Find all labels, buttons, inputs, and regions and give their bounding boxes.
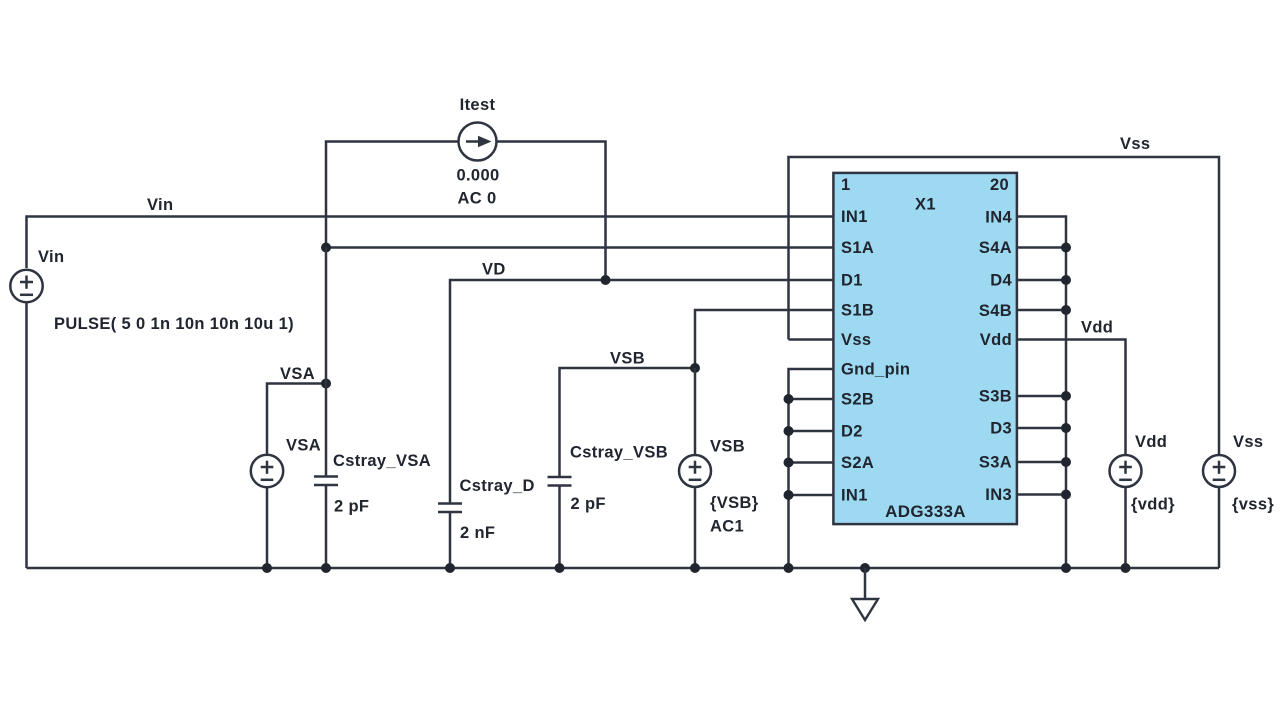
- pin D4 label: [990, 272, 1012, 290]
- wire Vss source bottom: [1218, 487, 1221, 568]
- label value {vdd}: [1131, 495, 1175, 513]
- svg-text:2 nF: 2 nF: [460, 524, 495, 542]
- pin IN4 label: [985, 209, 1012, 227]
- svg-text:PULSE( 5 0 1n 10n 10n 10u 1): PULSE( 5 0 1n 10n 10n 10u 1): [54, 315, 294, 333]
- svg-text:Vdd: Vdd: [1081, 319, 1113, 337]
- wire S1B pin to node VSB: [695, 310, 833, 368]
- label 0.000: [456, 167, 499, 185]
- junction S2A: [784, 458, 794, 468]
- svg-text:{vss}: {vss}: [1232, 495, 1274, 513]
- svg-text:AC 0: AC 0: [458, 190, 497, 208]
- pin S1A label: [841, 239, 874, 257]
- svg-text:S1B: S1B: [841, 302, 874, 320]
- wire S1A (node to IC pin S1A): [326, 246, 833, 249]
- label net Vdd (upper): [1081, 319, 1113, 337]
- svg-text:S4B: S4B: [979, 302, 1012, 320]
- label Vin (source name): [38, 248, 64, 266]
- svg-text:X1: X1: [915, 196, 936, 214]
- capacitor Cstray_VSB: [548, 477, 572, 568]
- junction rail right bus: [1061, 563, 1071, 573]
- label AC 0: [458, 190, 497, 208]
- svg-text:Vdd: Vdd: [1135, 433, 1167, 451]
- junction S3B: [1061, 391, 1071, 401]
- label Vdd (source name): [1135, 433, 1167, 451]
- svg-text:D3: D3: [990, 420, 1012, 438]
- junction S4B: [1061, 305, 1071, 315]
- svg-text:Vin: Vin: [147, 196, 173, 214]
- wire ground rail bottom: [27, 567, 1220, 570]
- svg-text:VSA: VSA: [286, 437, 321, 455]
- wire Vss pin stub: [789, 338, 834, 341]
- junction rail ground symbol: [860, 563, 870, 573]
- svg-text:ADG333A: ADG333A: [885, 502, 966, 521]
- IC U1 ADG333A body: [833, 173, 1017, 524]
- label Itest: [460, 96, 496, 114]
- label pin 20: [990, 176, 1009, 194]
- junction rail Cstray_VSB: [555, 563, 565, 573]
- junction VSB: [690, 363, 700, 373]
- wire IN4 right bus: [1017, 217, 1066, 569]
- junction S3A: [1061, 457, 1071, 467]
- pin S1B label: [841, 302, 874, 320]
- junction rail Vdd: [1121, 563, 1131, 573]
- svg-text:2 pF: 2 pF: [334, 498, 369, 516]
- svg-text:20: 20: [990, 176, 1009, 194]
- junction D3: [1061, 423, 1071, 433]
- label 2 pF (VSB): [571, 495, 606, 513]
- junction D2: [784, 426, 794, 436]
- pin IN1 label: [841, 208, 868, 226]
- junction S1A / Itest: [321, 243, 331, 253]
- junction rail Cstray_D: [445, 563, 455, 573]
- label pin 1: [841, 176, 851, 194]
- pin D2 label: [841, 423, 863, 441]
- voltage source VSB: [679, 455, 711, 487]
- wire IN1 bottom stub: [789, 494, 834, 497]
- junction IN1 bottom: [784, 490, 794, 500]
- pin IN1 (bottom) label: [841, 487, 868, 505]
- capacitor Cstray_VSA: [314, 477, 338, 569]
- label net Vin (top): [147, 196, 173, 214]
- label net VSB: [610, 350, 645, 368]
- wire Gnd_pin bus: [789, 369, 834, 568]
- current source Itest: [459, 123, 497, 161]
- svg-text:VSB: VSB: [610, 350, 645, 368]
- label value AC1: [710, 518, 744, 536]
- label Cstray_VSB: [570, 444, 668, 462]
- svg-text:Gnd_pin: Gnd_pin: [841, 361, 910, 379]
- pin S2B label: [841, 391, 874, 409]
- pin S3B label: [979, 388, 1012, 406]
- svg-text:S1A: S1A: [841, 239, 874, 257]
- svg-text:{vdd}: {vdd}: [1131, 495, 1175, 513]
- svg-text:IN1: IN1: [841, 487, 868, 505]
- svg-text:Vss: Vss: [1233, 433, 1263, 451]
- svg-text:0.000: 0.000: [456, 167, 499, 185]
- wire S3B stub: [1017, 395, 1066, 398]
- capacitor Cstray_VSA upper lead: [325, 248, 328, 477]
- wire S2B stub: [789, 398, 834, 401]
- junction IN3: [1061, 490, 1071, 500]
- svg-text:Vdd: Vdd: [980, 331, 1012, 349]
- svg-text:S4A: S4A: [979, 239, 1012, 257]
- svg-text:Cstray_D: Cstray_D: [460, 477, 535, 495]
- junction S2B: [784, 394, 794, 404]
- voltage source Vdd: [1110, 455, 1142, 487]
- wire VSA source bottom: [266, 487, 269, 568]
- wire D4 stub: [1017, 279, 1066, 282]
- label Cstray_VSA: [333, 452, 431, 470]
- pin D1 label: [841, 272, 863, 290]
- junction rail Gnd bus: [784, 563, 794, 573]
- wire Itest right branch down to node VD: [497, 142, 606, 281]
- label net VSA: [280, 365, 315, 383]
- label VSA (source name): [286, 437, 321, 455]
- ground symbol: [852, 568, 878, 620]
- junction rail VSB: [690, 563, 700, 573]
- wire D3 stub: [1017, 427, 1066, 430]
- label 2 pF: [334, 498, 369, 516]
- svg-text:D4: D4: [990, 272, 1012, 290]
- pin S4B label: [979, 302, 1012, 320]
- label value PULSE( 5 0 1n 10n 10n 10u 1): [54, 315, 294, 333]
- label value {vss}: [1232, 495, 1274, 513]
- pin IN3 label: [985, 486, 1012, 504]
- svg-text:Vin: Vin: [38, 248, 64, 266]
- label Cstray_D: [460, 477, 535, 495]
- wire Vdd pin to source: [1017, 340, 1126, 456]
- label ADG333A: [885, 502, 966, 521]
- junction S4A: [1061, 243, 1071, 253]
- wire VSB node horizontal: [560, 368, 696, 477]
- wire IN3 stub: [1017, 493, 1066, 496]
- wire S4A stub: [1017, 246, 1066, 249]
- label VSB (source name): [710, 438, 745, 456]
- wire Itest left branch (S1A node up and over): [326, 142, 459, 248]
- svg-text:D2: D2: [841, 423, 863, 441]
- junction VD / Itest: [601, 275, 611, 285]
- junction rail Cstray_VSA: [321, 563, 331, 573]
- capacitor Cstray_D: [438, 504, 462, 569]
- junction D4: [1061, 275, 1071, 285]
- wire VSB source bottom: [694, 487, 697, 568]
- wire Vin source bottom to ground rail: [25, 302, 28, 568]
- pin D3 label: [990, 420, 1012, 438]
- pin S3A label: [979, 454, 1012, 472]
- wire D2 stub: [789, 430, 834, 433]
- label X1: [915, 196, 936, 214]
- pin Vss label: [841, 331, 871, 349]
- svg-text:1: 1: [841, 176, 851, 194]
- pin S4A label: [979, 239, 1012, 257]
- svg-text:Cstray_VSA: Cstray_VSA: [333, 452, 431, 470]
- svg-text:S3A: S3A: [979, 454, 1012, 472]
- pin Vdd label: [980, 331, 1012, 349]
- wire S2A stub: [789, 461, 834, 464]
- svg-text:Cstray_VSB: Cstray_VSB: [570, 444, 668, 462]
- junction VSA: [321, 379, 331, 389]
- svg-text:Itest: Itest: [460, 96, 496, 114]
- svg-text:Vss: Vss: [841, 331, 871, 349]
- voltage source V1 Vin: [10, 270, 42, 302]
- svg-text:VD: VD: [482, 261, 506, 279]
- svg-text:S3B: S3B: [979, 388, 1012, 406]
- svg-text:IN1: IN1: [841, 208, 868, 226]
- label 2 nF: [460, 524, 495, 542]
- wire VSA stub: [267, 384, 326, 456]
- svg-text:IN3: IN3: [985, 486, 1012, 504]
- svg-text:{VSB}: {VSB}: [710, 494, 759, 512]
- svg-text:IN4: IN4: [985, 209, 1012, 227]
- wire S4B stub: [1017, 309, 1066, 312]
- wire Vdd source bottom: [1124, 487, 1127, 568]
- label value {VSB}: [710, 494, 759, 512]
- label net Vss (top): [1120, 135, 1150, 153]
- wire VD (Cstray_D top, D1 pin): [450, 280, 833, 504]
- svg-text:2 pF: 2 pF: [571, 495, 606, 513]
- junction rail VSA: [262, 563, 272, 573]
- wire VSB source top: [694, 368, 697, 456]
- wire S3A stub: [1017, 461, 1066, 464]
- pin Gnd_pin label: [841, 361, 910, 379]
- wire Vss top rail: [789, 157, 1220, 455]
- svg-text:D1: D1: [841, 272, 863, 290]
- voltage source Vss: [1203, 455, 1235, 487]
- voltage source VSA: [251, 455, 283, 487]
- label net VD: [482, 261, 506, 279]
- svg-text:Vss: Vss: [1120, 135, 1150, 153]
- svg-text:S2B: S2B: [841, 391, 874, 409]
- svg-text:VSB: VSB: [710, 438, 745, 456]
- pin S2A label: [841, 454, 874, 472]
- svg-text:VSA: VSA: [280, 365, 315, 383]
- wire Vin top rail (node Vin to IN1): [27, 217, 834, 269]
- label Vss (source name): [1233, 433, 1263, 451]
- svg-text:S2A: S2A: [841, 454, 874, 472]
- svg-text:AC1: AC1: [710, 518, 744, 536]
